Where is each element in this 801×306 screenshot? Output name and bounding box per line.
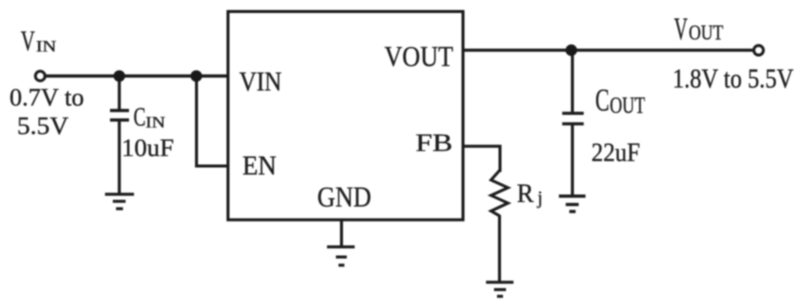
svg-text:C: C [134, 102, 146, 131]
svg-text:22uF: 22uF [591, 139, 640, 167]
svg-text:j: j [537, 189, 543, 209]
svg-text:VOUT: VOUT [384, 41, 453, 73]
svg-text:IN: IN [146, 114, 166, 131]
svg-text:IN: IN [36, 37, 57, 55]
svg-text:C: C [595, 82, 609, 117]
svg-text:1.8V to 5.5V: 1.8V to 5.5V [673, 64, 794, 94]
svg-text:5.5V: 5.5V [17, 111, 69, 139]
svg-text:GND: GND [317, 181, 371, 213]
svg-text:V: V [674, 12, 688, 47]
svg-text:EN: EN [242, 150, 276, 181]
svg-text:0.7V to: 0.7V to [10, 85, 85, 112]
svg-text:OUT: OUT [689, 22, 724, 45]
svg-text:10uF: 10uF [122, 133, 174, 162]
svg-text:V: V [21, 26, 36, 57]
svg-text:VIN: VIN [239, 66, 282, 97]
svg-text:R: R [517, 179, 535, 208]
svg-text:OUT: OUT [610, 94, 646, 119]
svg-text:FB: FB [416, 129, 453, 157]
